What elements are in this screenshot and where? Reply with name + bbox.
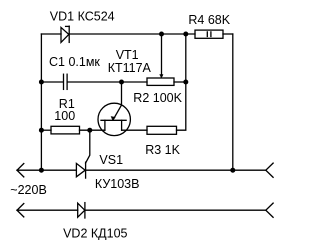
arrow left lower <box>17 204 24 217</box>
wire right vertical from R4 to 220V rail <box>232 34 234 170</box>
zener diode VD1 <box>61 26 69 42</box>
transistor VT1 (unijunction) <box>98 82 130 136</box>
capacitor C1 <box>64 74 68 89</box>
wire top rail left segment <box>41 33 61 35</box>
wire R1 to node B1 <box>80 129 105 131</box>
node dot R2 right <box>183 80 188 85</box>
wire 220V rail right <box>86 169 266 171</box>
svg-text:КУ103В: КУ103В <box>95 177 140 191</box>
node dot top rail divider <box>183 32 188 37</box>
wire top rail middle segment <box>69 33 195 35</box>
node dot R1 left <box>39 128 44 133</box>
node dot C1 left <box>39 80 44 85</box>
line break symbol right lower <box>266 203 273 217</box>
wire R2 wiper from top rail <box>161 34 163 75</box>
svg-text:R2 100K: R2 100K <box>133 91 182 105</box>
svg-text:VD2 КД105: VD2 КД105 <box>63 227 127 241</box>
arrow left upper <box>17 164 24 177</box>
wire top rail right segment after R4 <box>223 33 233 35</box>
thyristor VS1 <box>76 130 89 178</box>
svg-text:VT1: VT1 <box>116 48 139 62</box>
svg-text:КТ117А: КТ117А <box>108 61 152 75</box>
wire R1 left lead <box>41 129 51 131</box>
node dot emitter <box>119 80 124 85</box>
wire B2 to R3 <box>122 129 147 131</box>
wire left vertical bus <box>40 34 42 170</box>
svg-text:VS1: VS1 <box>99 153 123 167</box>
svg-text:~220В: ~220В <box>10 183 47 197</box>
svg-text:100: 100 <box>54 109 75 123</box>
resistor R2 (potentiometer) <box>147 78 174 85</box>
rail break symbol right upper <box>266 163 273 177</box>
resistor R3 <box>147 126 177 134</box>
svg-text:R3 1K: R3 1K <box>145 143 180 157</box>
node dot rail left vertical <box>39 168 44 173</box>
wire right divider vertical <box>177 34 186 130</box>
wire C1 net left lead <box>41 81 63 83</box>
svg-text:C1 0.1мк: C1 0.1мк <box>49 55 100 69</box>
wire 220V rail left with arrow <box>17 169 76 171</box>
wire bottom line left with arrow <box>17 209 78 211</box>
wire R2 right lead <box>174 81 186 83</box>
resistor R4 <box>195 30 223 38</box>
R4 power-rating marks <box>207 32 211 37</box>
node dot R1/B1/gate <box>87 128 92 133</box>
node dot rail right vertical <box>230 168 235 173</box>
svg-text:R4 68K: R4 68K <box>188 13 230 27</box>
svg-text:VD1 КС524: VD1 КС524 <box>50 9 115 23</box>
node dot top rail wiper <box>159 32 164 37</box>
wire bottom line right <box>85 209 266 211</box>
R2 wiper arrowhead <box>160 75 163 78</box>
resistor R1 <box>51 126 80 134</box>
diode VD2 <box>78 203 85 218</box>
wire C1 to R2 <box>67 81 147 83</box>
